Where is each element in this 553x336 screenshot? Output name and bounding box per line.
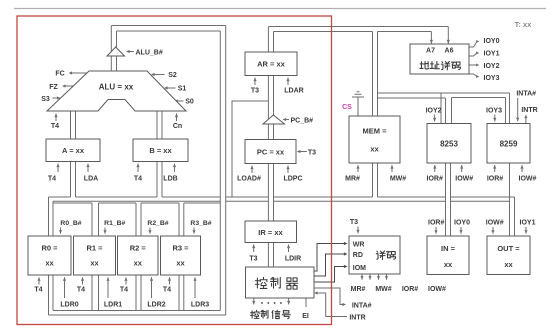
svg-text:MW#: MW# (390, 176, 406, 183)
register R2 (118, 236, 159, 275)
label 控制器 (255, 277, 267, 288)
svg-text:LDA: LDA (84, 176, 98, 183)
svg-text:S3: S3 (41, 96, 50, 103)
wire ALU_B# bus left inner (116, 31, 118, 71)
wire IOY3 output (470, 74, 478, 77)
wire INTA# to 8259 (517, 98, 519, 121)
svg-text:8259: 8259 (500, 140, 518, 149)
label 控制信号 (251, 310, 260, 318)
wire reg bus left inner (52, 201, 54, 310)
wire IOM from controller (314, 267, 345, 283)
wire reg bus vertical (91, 203, 93, 311)
svg-text:IOW#: IOW# (486, 220, 504, 227)
svg-text:LDR0: LDR0 (60, 302, 78, 309)
wire address bus to A7 (274, 31, 373, 33)
wire S3 select (53, 97, 59, 99)
register A (46, 139, 100, 162)
wire IOW# to 8259 (521, 165, 523, 172)
svg-text:T3: T3 (350, 219, 358, 226)
svg-text:xx: xx (370, 145, 379, 154)
wire LDPC to PC (287, 166, 289, 174)
wire A6 drop (447, 27, 449, 44)
wire reg channel tops (53, 202, 92, 204)
buffer PC_B# (263, 115, 285, 124)
wire IOR# to 8259 (494, 165, 496, 172)
wire ALU-A bus left (70, 111, 72, 197)
wire INTA# output (314, 288, 344, 305)
wire T4 to Rn (125, 277, 127, 284)
svg-text:IOR#: IOR# (428, 220, 444, 227)
svg-text:T4: T4 (48, 176, 56, 183)
svg-text:xx: xx (504, 260, 513, 269)
wire T4 to Rn (38, 277, 40, 284)
wire T3 to AR (254, 78, 256, 86)
control signal dots (261, 302, 263, 304)
svg-text:IOY2: IOY2 (484, 63, 500, 70)
svg-text:IOY1: IOY1 (484, 51, 500, 58)
wire IOY1 to OUT (525, 227, 527, 234)
wire MEM bus left (372, 32, 374, 198)
svg-text:IN =: IN = (441, 244, 456, 253)
wire decoder output (378, 274, 380, 280)
wire AR tap down to bus (232, 101, 268, 197)
wire FC flag (71, 72, 87, 74)
svg-text:ALU = xx: ALU = xx (99, 83, 134, 92)
svg-text:RD: RD (353, 252, 363, 259)
wire 8253-IN bus right (450, 163, 452, 236)
svg-text:T3: T3 (308, 150, 316, 157)
wire IOW# to 8253 (461, 165, 463, 172)
svg-text:R1 =: R1 = (86, 244, 103, 253)
wire LDRn to Rn (64, 277, 66, 298)
svg-text:T4: T4 (134, 176, 142, 183)
wire IOW# to OUT (492, 227, 494, 234)
control unit 控制器 (246, 267, 315, 298)
wire INTR from 8259 (525, 117, 527, 124)
svg-text:EI: EI (302, 313, 309, 320)
wire drop to 8253 b (445, 98, 447, 124)
wire ALU_B# bus left outer (110, 26, 112, 72)
wire OUT bus right (514, 197, 516, 236)
svg-text:xx: xx (45, 259, 54, 268)
svg-text:xx: xx (444, 260, 453, 269)
wire T4 to Rn (82, 277, 84, 284)
svg-text:R0_B#: R0_B# (60, 220, 81, 227)
wire ALU_B# enable (129, 51, 135, 53)
svg-text:MR#: MR# (351, 286, 366, 293)
wire drop to 8259 a (505, 98, 507, 124)
register IR (245, 221, 297, 243)
wire INTR input to controller (317, 293, 348, 317)
register AR (245, 52, 297, 76)
wire mid bus inner (53, 200, 220, 202)
wire LDRn to Rn (107, 277, 109, 298)
svg-text:LDR1: LDR1 (104, 302, 122, 309)
svg-text:T: xx: T: xx (515, 20, 533, 29)
wire io bus inner top b (452, 97, 506, 99)
wire RD from controller (314, 254, 345, 276)
svg-text:LDAR: LDAR (284, 88, 303, 95)
wire MR# to MEM (357, 165, 359, 172)
wire EI stub (305, 298, 307, 307)
wire LDA to A (87, 164, 89, 173)
wire Rn_B# stub (149, 228, 151, 234)
wire S1 select (167, 87, 176, 89)
svg-text:IOR#: IOR# (487, 176, 503, 183)
svg-text:IOW#: IOW# (519, 176, 537, 183)
svg-text:LDB: LDB (163, 176, 177, 183)
svg-text:T3: T3 (251, 88, 259, 95)
wire S2 select (154, 74, 165, 76)
wire io bus outer top (378, 92, 510, 94)
wire T4 to B (137, 164, 139, 173)
svg-text:LDR3: LDR3 (191, 302, 209, 309)
wire LDRn to Rn (151, 277, 153, 298)
wire 8253-IN bus left (445, 163, 447, 236)
wire AR-PC bus left (267, 27, 269, 222)
register R1 (74, 236, 116, 275)
svg-text:INTR: INTR (349, 315, 365, 322)
svg-text:IOY0: IOY0 (454, 220, 470, 227)
wire IOY1 output (470, 53, 478, 56)
svg-text:OUT =: OUT = (497, 244, 520, 253)
wire reg bus bottom inner (53, 310, 220, 312)
wire WR from controller (314, 244, 345, 272)
wire IOR# to 8253 (434, 165, 436, 172)
wire drop to 8253 c (451, 98, 453, 124)
wire AR-PC bus right (273, 32, 275, 222)
port IN (427, 236, 469, 275)
svg-text:S0: S0 (185, 99, 194, 106)
wire drop to 8253 a (440, 93, 442, 124)
svg-text:R2 =: R2 = (130, 244, 147, 253)
register B (133, 139, 188, 162)
wire MW# to MEM (391, 165, 393, 172)
CS pull-up symbol (357, 97, 359, 116)
svg-text:A7: A7 (426, 48, 435, 55)
svg-text:IOR#: IOR# (402, 286, 418, 293)
wire IOY0 output (470, 42, 478, 48)
svg-text:T4: T4 (163, 287, 171, 294)
wire ALU bus inner top (117, 30, 221, 32)
wire ALU-B bus left (156, 111, 158, 197)
svg-text:S1: S1 (178, 86, 187, 93)
svg-text:IOW#: IOW# (455, 176, 473, 183)
svg-text:MR#: MR# (345, 176, 360, 183)
svg-text:R0 =: R0 = (41, 244, 58, 253)
top border line (14, 8, 546, 10)
wire IOR# to IN (435, 227, 437, 234)
wire Rn_B# stub (60, 228, 62, 234)
wire LDB to B (174, 164, 176, 173)
svg-text:xx: xx (90, 259, 99, 268)
buffer ALU_B# (107, 47, 125, 56)
address decoder 地址译码 (410, 44, 469, 74)
svg-text:R1_B#: R1_B# (104, 220, 125, 227)
svg-text:PC = xx: PC = xx (257, 148, 285, 157)
wire reg bus vertical (135, 203, 137, 311)
wire bus right outer vertical (225, 26, 227, 316)
chip 8259 (487, 124, 530, 164)
port OUT (487, 236, 530, 275)
wire IR-CU bus right (273, 243, 275, 268)
wire control signal arrow (288, 298, 290, 305)
wire reg bus vertical (98, 203, 100, 311)
svg-text:T4: T4 (77, 287, 85, 294)
svg-text:IOM: IOM (353, 265, 366, 272)
wire FZ flag (65, 85, 74, 87)
svg-text:T3: T3 (249, 256, 257, 263)
wire T4 to ALU (55, 114, 57, 122)
wire T3 to decoder (357, 227, 359, 234)
wire bus right inner vertical (219, 31, 221, 311)
wire drop to 8259 b (509, 93, 511, 124)
wire reg bus vertical (183, 203, 185, 311)
register R3 (161, 236, 201, 275)
svg-text:AR = xx: AR = xx (257, 60, 286, 69)
wire IOY0 to IN (460, 227, 462, 234)
svg-text:A = xx: A = xx (62, 146, 85, 155)
register PC (245, 140, 296, 164)
chip 8253 (427, 124, 471, 164)
wire T3 to PC (299, 151, 307, 153)
wire ALU bus outer top (111, 25, 225, 27)
svg-text:R2_B#: R2_B# (147, 220, 168, 227)
svg-text:T4: T4 (34, 287, 42, 294)
svg-text:FZ: FZ (49, 84, 58, 91)
svg-text:IOY3: IOY3 (484, 75, 500, 82)
wire IOY2 to 8253 (434, 115, 436, 122)
svg-text:T4: T4 (120, 287, 128, 294)
svg-text:R3 =: R3 = (172, 244, 189, 253)
wire LOAD# to PC (251, 166, 253, 174)
wire PC_B# enable (285, 119, 289, 121)
svg-text:ALU_B#: ALU_B# (136, 50, 163, 57)
svg-text:INTA#: INTA# (516, 91, 536, 98)
wire ALU-A bus right (75, 111, 77, 197)
wire MEM bus right (377, 32, 379, 198)
decoder 译码 (349, 236, 400, 274)
wire reg bus vertical (140, 203, 142, 311)
register R0 (28, 236, 71, 275)
wire LDRn to Rn (194, 277, 196, 298)
wire A7 drop (430, 32, 432, 44)
svg-text:xx: xx (176, 259, 185, 268)
svg-text:T4: T4 (51, 123, 59, 130)
wire T4 to Rn (169, 277, 171, 284)
svg-text:MW#: MW# (375, 286, 391, 293)
svg-text:INTA#: INTA# (352, 303, 372, 310)
wire LDAR to AR (287, 78, 289, 86)
label 地址译码 (420, 61, 429, 68)
svg-text:Cn: Cn (173, 123, 182, 130)
svg-text:B = xx: B = xx (149, 146, 172, 155)
svg-text:MEM =: MEM = (363, 127, 388, 136)
wire mid bus outer (49, 196, 71, 198)
wire io bus inner top a (378, 97, 446, 99)
wire IOY2 output (470, 64, 478, 66)
svg-text:WR: WR (353, 242, 365, 249)
svg-text:IOY1: IOY1 (520, 220, 536, 227)
svg-text:PC_B#: PC_B# (291, 118, 314, 125)
svg-text:A6: A6 (445, 48, 454, 55)
wire decoder output (361, 274, 363, 280)
wire decoder output (369, 274, 371, 280)
wire ALU-B bus right (161, 111, 163, 197)
wire Cn to ALU (176, 114, 178, 122)
svg-text:xx: xx (134, 259, 143, 268)
svg-text:S2: S2 (168, 72, 177, 79)
wire T3 to IR (253, 245, 255, 253)
wire decoder output (386, 274, 388, 280)
memory MEM (349, 116, 400, 163)
svg-text:IR = xx: IR = xx (258, 228, 283, 237)
wire 8259-OUT bus left (509, 163, 511, 236)
svg-text:CS: CS (342, 104, 352, 111)
wire S0 select (177, 100, 184, 102)
svg-text:LDR2: LDR2 (147, 302, 165, 309)
svg-text:FC: FC (55, 71, 64, 78)
svg-text:INTR: INTR (521, 107, 537, 114)
wire reg bus left outer (48, 197, 50, 315)
svg-text:LDPC: LDPC (283, 176, 302, 183)
svg-text:8253: 8253 (440, 140, 458, 149)
wire T4 to A (57, 164, 59, 173)
wire address bus to A6 (268, 26, 448, 28)
wire reg bus vertical (178, 203, 180, 311)
wire IR-CU bus left (267, 243, 269, 268)
op-unit ALU (47, 71, 186, 111)
svg-text:IOY3: IOY3 (486, 108, 502, 115)
wire LDIR to IR (288, 245, 290, 253)
svg-text:IOY0: IOY0 (484, 38, 500, 45)
svg-text:LDIR: LDIR (285, 256, 301, 263)
svg-text:R3_B#: R3_B# (190, 220, 211, 227)
svg-text:IOW#: IOW# (428, 286, 446, 293)
wire Rn_B# stub (104, 228, 106, 234)
wire IOY3 to 8259 (494, 115, 496, 122)
svg-text:LOAD#: LOAD# (237, 176, 261, 183)
wire reg bus bottom outer (49, 314, 226, 316)
wire Rn_B# stub (193, 228, 195, 234)
CPU boundary red frame (17, 16, 332, 325)
wire control signal arrow (253, 298, 255, 305)
label 译码 (376, 251, 385, 260)
svg-text:IOY2: IOY2 (426, 108, 442, 115)
svg-text:IOR#: IOR# (427, 176, 443, 183)
